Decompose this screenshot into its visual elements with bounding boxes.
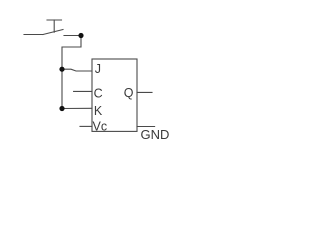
wire C input stub: [74, 90, 92, 92]
wire J input: [62, 69, 92, 71]
wire Vc input stub: [80, 125, 92, 127]
wire K input: [62, 107, 92, 109]
node junction dot C (K): [59, 106, 64, 111]
wire from switch to bus: [62, 36, 81, 109]
svg-text:Q: Q: [124, 86, 134, 100]
svg-text:GND: GND: [141, 127, 170, 142]
switch S1 actuator cap: [47, 19, 62, 21]
svg-text:J: J: [95, 62, 101, 76]
switch S1 actuator stem: [53, 20, 55, 32]
wire GND stub: [137, 126, 155, 128]
switch S1 right terminal wire: [64, 35, 81, 37]
wire Q output: [137, 91, 152, 93]
svg-text:Vc: Vc: [93, 119, 108, 133]
switch S1 lever: [43, 30, 63, 35]
svg-text:C: C: [94, 86, 103, 100]
svg-text:K: K: [94, 104, 103, 118]
node junction dot B (J): [59, 67, 64, 72]
flip-flop U1 body: [92, 59, 137, 131]
node junction dot A (switch output): [78, 33, 83, 38]
switch S1 left terminal wire: [24, 34, 43, 36]
